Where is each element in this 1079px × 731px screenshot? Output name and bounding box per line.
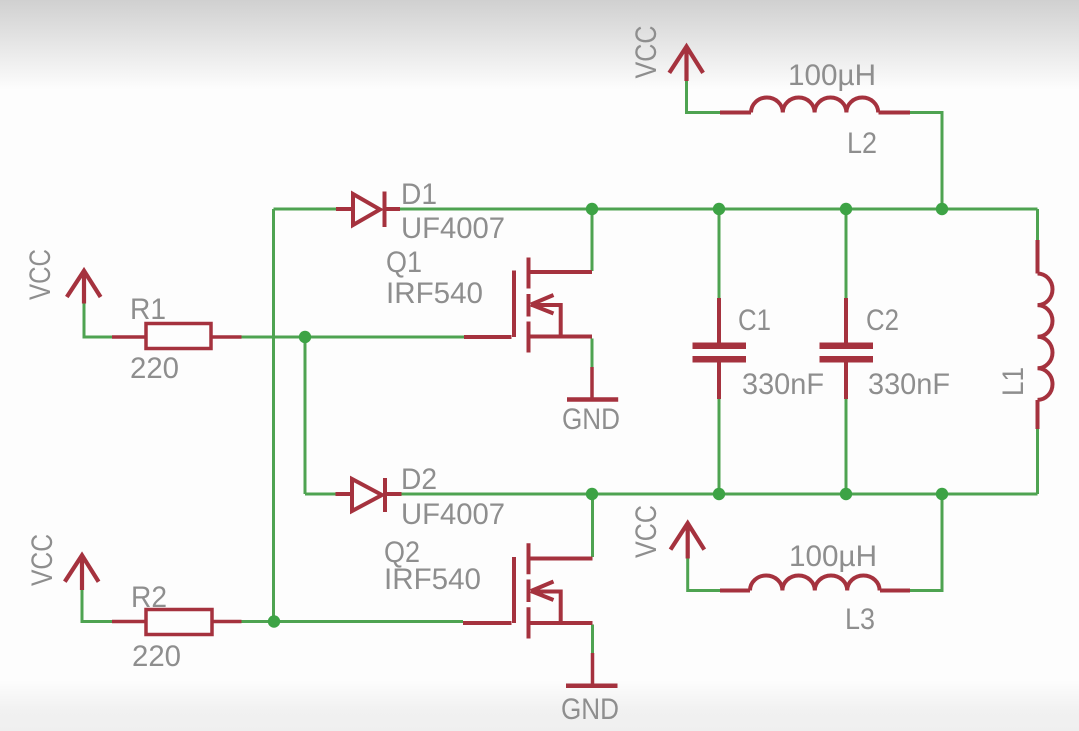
wire bottom rail [305,493,1038,496]
wire Q1 drain [591,209,594,271]
svg-text:VCC: VCC [26,534,59,586]
resistor R1 [112,324,242,349]
wire top rail [274,208,1038,211]
svg-text:IRF540: IRF540 [384,563,481,596]
svg-text:R2: R2 [131,581,167,614]
ground GND2 [566,653,618,686]
svg-text:L2: L2 [847,127,877,160]
svg-text:330nF: 330nF [868,368,950,401]
wire Q2 drain [591,494,594,557]
wire L1 branch [1036,209,1039,494]
svg-text:VCC: VCC [24,249,57,300]
svg-text:100µH: 100µH [789,540,877,573]
svg-text:GND: GND [561,693,619,726]
svg-text:220: 220 [132,640,181,673]
wire C2 branch [845,209,848,494]
svg-text:GND: GND [562,403,620,436]
wire R2 row [82,590,463,622]
wire Q2 source to gnd [591,625,594,654]
transistor Q2 [463,543,593,638]
svg-text:D2: D2 [401,463,437,496]
node bottom rail Q2 [586,488,598,500]
diode D2 [336,478,402,512]
power VCC2 [65,555,99,590]
wire VCC3 to L2 row [687,81,943,209]
wire Q1 source to gnd [591,339,594,368]
transistor Q1 [464,258,592,353]
power VCC1 [67,271,101,304]
svg-text:C2: C2 [866,304,899,337]
svg-text:VCC: VCC [630,26,663,79]
ground GND1 [567,367,618,400]
svg-text:D1: D1 [401,178,437,211]
svg-text:Q1: Q1 [386,246,422,279]
node R1 gate junction [299,331,311,343]
resistor R2 [112,610,242,635]
inductor L3 [720,576,910,591]
node bottom rail L3 [936,488,948,500]
power VCC4 [671,523,705,558]
svg-text:VCC: VCC [630,505,663,558]
node top rail C2 [840,203,852,215]
svg-text:100µH: 100µH [788,59,876,92]
node bottom rail C1 [713,488,725,500]
power VCC3 [669,47,703,82]
inductor L2 [720,98,910,113]
svg-text:R1: R1 [130,293,166,326]
capacitor C1 [693,298,747,399]
svg-text:IRF540: IRF540 [386,277,483,310]
svg-text:UF4007: UF4007 [401,498,505,531]
node top rail L2 [936,203,948,215]
capacitor C2 [820,298,874,399]
node bottom rail C2 [840,488,852,500]
inductor L1 [1038,240,1053,429]
svg-text:L3: L3 [845,603,875,636]
svg-text:UF4007: UF4007 [401,212,505,245]
diode D1 [336,192,400,228]
node top rail C1 [713,203,725,215]
svg-text:C1: C1 [738,304,771,337]
node R2 gate junction [268,615,280,627]
wire left vertical net A [272,209,275,622]
wire VCC4 to L3 row [688,494,942,591]
wire C1 branch [718,209,721,494]
svg-text:330nF: 330nF [742,368,824,401]
wire R1 row [84,304,464,338]
wire left vertical net B [304,337,307,494]
svg-text:L1: L1 [997,367,1030,396]
node top rail Q1 [586,203,598,215]
svg-text:220: 220 [130,352,179,385]
